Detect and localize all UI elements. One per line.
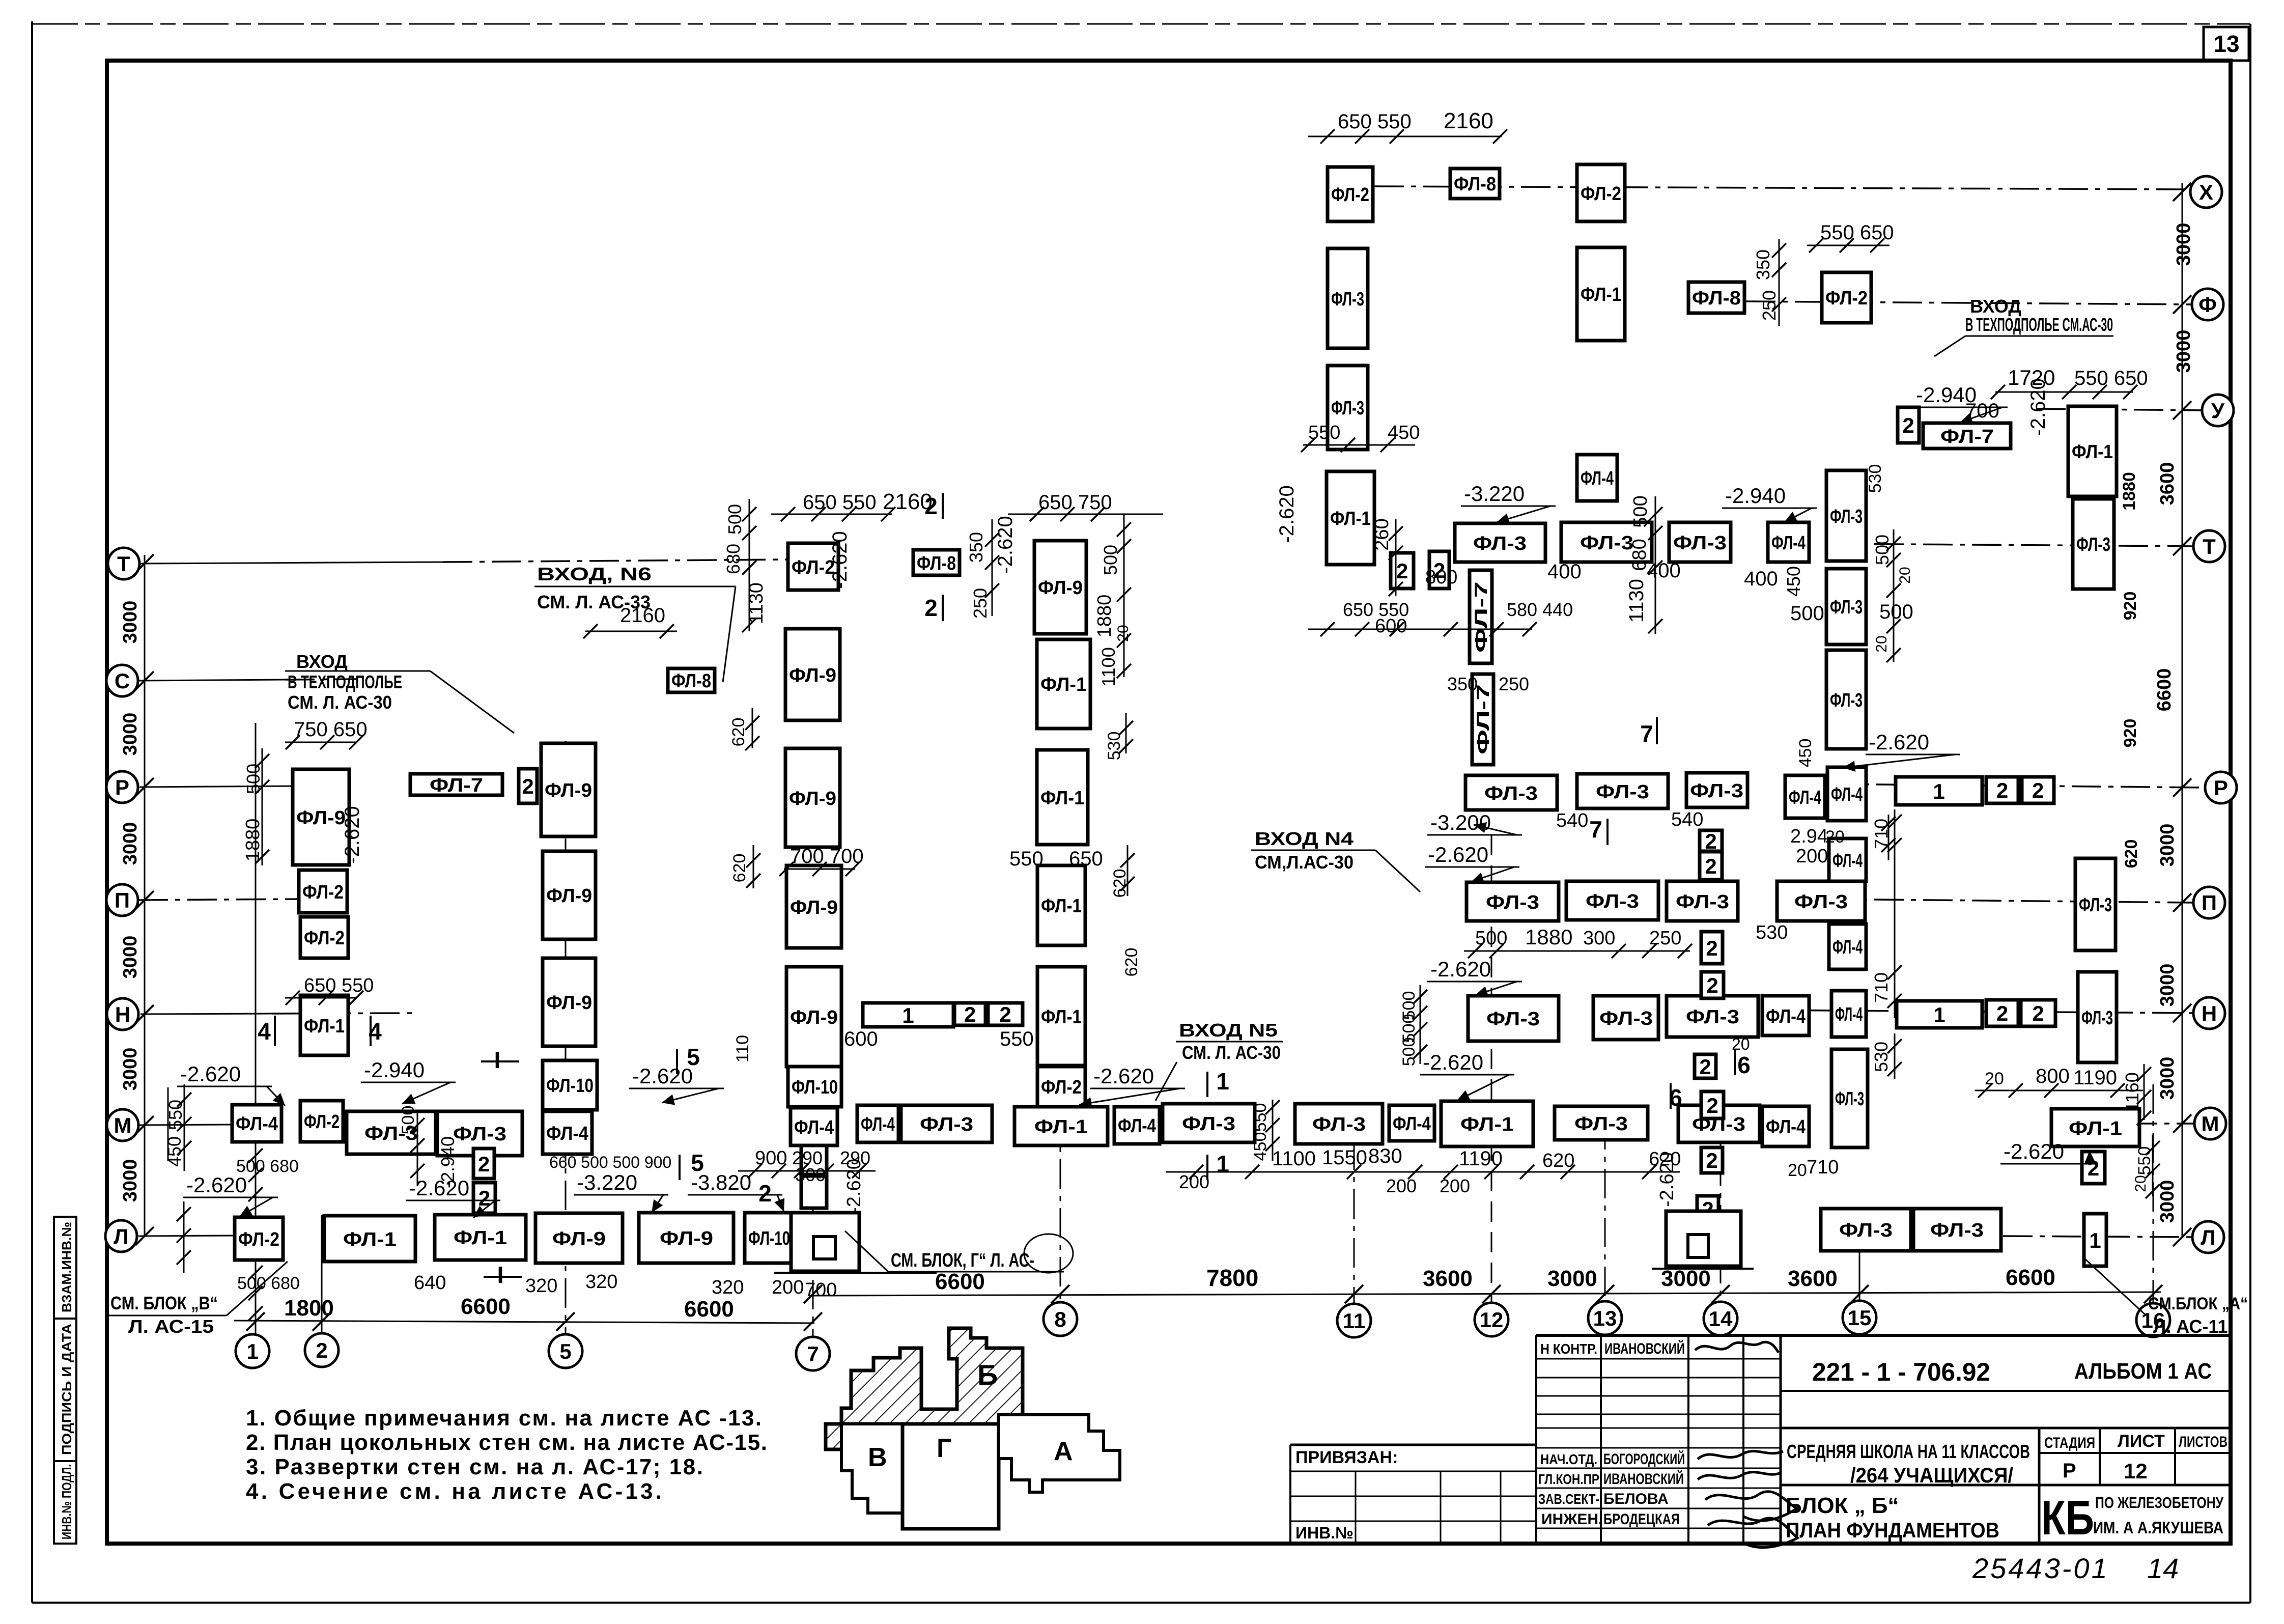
svg-text:Н КОНТР.: Н КОНТР. [1540, 1341, 1597, 1357]
foundation block ФЛ-9 at 1066,1882 [543, 958, 596, 1046]
svg-text:1. Общие примечания см. на: 1. Общие примечания см. на листе АС -13. [246, 1406, 762, 1431]
svg-text:3. Развертки стен см. на л: 3. Развертки стен см. на л. АС-17; 18. [246, 1454, 703, 1479]
svg-text:1880: 1880 [242, 819, 264, 862]
svg-text:2: 2 [1699, 1055, 1711, 1079]
svg-text:ФЛ-9: ФЛ-9 [296, 807, 346, 829]
key plan block G (Г) [903, 1424, 999, 1529]
svg-text:500: 500 [399, 1106, 418, 1135]
svg-text:2: 2 [964, 1002, 976, 1026]
svg-text:8: 8 [1054, 1307, 1066, 1331]
svg-text:680: 680 [723, 544, 744, 574]
svg-text:ВХОД: ВХОД [296, 651, 348, 672]
svg-text:20: 20 [1873, 635, 1890, 652]
svg-text:250: 250 [1759, 290, 1780, 321]
bottom dimension line upper (axes 7-16) [804, 1265, 2162, 1303]
svg-text:6600: 6600 [684, 1297, 734, 1322]
svg-text:СМ,Л.АС-30: СМ,Л.АС-30 [1255, 852, 1354, 873]
svg-text:БЕЛОВА: БЕЛОВА [1603, 1491, 1669, 1507]
foundation block ФЛ-4 at 456,2170 [232, 1105, 281, 1142]
svg-text:3000: 3000 [120, 1159, 141, 1202]
staff table [1536, 1335, 1781, 1544]
axis circle 7 [796, 1337, 830, 1370]
svg-text:ФЛ-7: ФЛ-7 [1474, 684, 1493, 754]
axis circle T left [108, 548, 139, 579]
foundation block ФЛ-9 at 575,1511 [293, 769, 349, 865]
dimension lines [168, 129, 2143, 1179]
svg-text:-2.620: -2.620 [1093, 1064, 1154, 1088]
axis circle 11 [1337, 1304, 1371, 1337]
key plan hatched appendage [826, 1424, 854, 1449]
svg-text:ИВАНОВСКИЙ: ИВАНОВСКИЙ [1603, 1470, 1684, 1488]
svg-text:-3.220: -3.220 [577, 1170, 637, 1194]
svg-text:-2.620: -2.620 [1276, 485, 1298, 543]
svg-text:2: 2 [522, 774, 533, 798]
svg-text:5: 5 [691, 1150, 704, 1176]
title block top border [1536, 1334, 2231, 1337]
foundation block 2 at 3342,2144 [1701, 1091, 1724, 1118]
foundation block 2 at 4090,2262 [2082, 1152, 2105, 1184]
svg-text:ФЛ-9: ФЛ-9 [790, 897, 838, 918]
svg-text:БРОДЕЦКАЯ: БРОДЕЦКАЯ [1603, 1511, 1680, 1528]
svg-text:2: 2 [478, 1152, 490, 1176]
foundation block 2 at 3972,1526 [2022, 777, 2054, 803]
foundation block ФЛ-3 at 3588,1277 [1826, 650, 1866, 749]
annotation SM.BLOK A (bottom right) [2084, 1258, 2248, 1337]
svg-text:ЛИСТОВ: ЛИСТОВ [2179, 1434, 2227, 1450]
axis circle 5 [549, 1334, 582, 1368]
svg-text:ФЛ-2: ФЛ-2 [1825, 288, 1868, 309]
foundation block ФЛ-1 at 2037,1256 [1037, 639, 1090, 729]
axis line L right [2003, 1236, 2192, 1237]
svg-text:500: 500 [1879, 601, 1913, 623]
svg-text:ФЛ-1: ФЛ-1 [454, 1227, 507, 1249]
axis circle 16 [2136, 1303, 2170, 1337]
svg-text:400: 400 [1744, 568, 1778, 590]
foundation block ФЛ-4 at 1553,2176 [791, 1108, 837, 1145]
svg-text:320: 320 [585, 1271, 617, 1293]
svg-text:540: 540 [1556, 810, 1588, 831]
svg-text:-2.940: -2.940 [1916, 383, 1977, 407]
axis line 1 vertical [255, 723, 257, 1335]
stage/sheet sub-table [2039, 1428, 2231, 1544]
foundation block ФЛ-3 at 3274,1956 [1667, 996, 1758, 1037]
svg-text:ФЛ-3: ФЛ-3 [2079, 894, 2112, 916]
svg-text:АЛЬБОМ 1 АС: АЛЬБОМ 1 АС [2074, 1359, 2212, 1384]
foundation block ФЛ-3 at 3274,1731 [1667, 881, 1738, 921]
svg-text:6600: 6600 [935, 1269, 985, 1294]
foundation block ФЛ-3 at 3098,1520 [1577, 774, 1668, 808]
svg-text:350: 350 [1447, 674, 1478, 694]
svg-text:620: 620 [1542, 1150, 1574, 1171]
svg-text:БЛОК „ Б“: БЛОК „ Б“ [1786, 1493, 1899, 1518]
svg-text:250: 250 [970, 588, 991, 619]
foundation block ФЛ-3 at 3077,1731 [1566, 881, 1658, 920]
svg-text:ФЛ-2: ФЛ-2 [302, 882, 344, 903]
svg-text:ПОДПИСЬ И ДАТА: ПОДПИСЬ И ДАТА [59, 1324, 74, 1455]
svg-text:ФЛ-3: ФЛ-3 [1473, 533, 1527, 554]
svg-text:ФЛ-4: ФЛ-4 [1832, 937, 1863, 958]
svg-text:300: 300 [795, 1164, 826, 1185]
svg-text:ФЛ-1: ФЛ-1 [2072, 441, 2113, 463]
axis circle L right [2192, 1221, 2224, 1253]
svg-text:500: 500 [724, 504, 745, 535]
svg-text:ФЛ-10: ФЛ-10 [748, 1228, 790, 1249]
svg-text:ФЛ-3: ФЛ-3 [1830, 597, 1863, 618]
svg-text:3000: 3000 [2157, 964, 2178, 1007]
foundation block ФЛ-2 at 1548,1067 [788, 543, 838, 590]
svg-text:1800: 1800 [284, 1296, 334, 1321]
annotation VHOD N4 [1251, 828, 1420, 892]
svg-text:ФЛ-3: ФЛ-3 [2076, 534, 2110, 555]
svg-text:ФЛ-4: ФЛ-4 [1766, 1116, 1806, 1138]
foundation block ФЛ-8 at 1312,1313 [668, 668, 715, 692]
foundation block ФЛ-3 at 2608,488 [1328, 248, 1368, 348]
svg-text:ФЛ-3: ФЛ-3 [1331, 398, 1364, 419]
svg-text:ФЛ-2: ФЛ-2 [304, 1111, 340, 1133]
svg-text:Н: Н [115, 1002, 130, 1026]
svg-text:ЗАВ.СЕКТ-: ЗАВ.СЕКТ- [1538, 1491, 1599, 1507]
svg-text:750 650: 750 650 [294, 718, 368, 741]
foundation block 2 at 3342,1830 [1701, 932, 1723, 964]
svg-text:НАЧ.ОТД.: НАЧ.ОТД. [1540, 1451, 1597, 1467]
svg-text:ВХОД, N6: ВХОД, N6 [537, 564, 652, 584]
svg-text:ФЛ-4: ФЛ-4 [1766, 1006, 1806, 1027]
svg-text:3000: 3000 [2157, 824, 2178, 867]
svg-text:ФЛ-4: ФЛ-4 [236, 1113, 278, 1135]
svg-text:ФЛ-3: ФЛ-3 [1586, 891, 1639, 912]
annotation VHOD v tehpodpolye (left) [285, 651, 514, 733]
foundation block ФЛ-2 at 3579,535 [1822, 272, 1871, 323]
svg-text:6: 6 [1737, 1052, 1751, 1078]
svg-text:ФЛ-7: ФЛ-7 [430, 775, 483, 796]
svg-text:320: 320 [525, 1275, 557, 1297]
foundation block ФЛ-8 at 1794,1080 [913, 550, 960, 575]
svg-text:ГЛ.КОН.ПР: ГЛ.КОН.ПР [1538, 1471, 1599, 1487]
axis line 7 vertical [812, 1084, 814, 1337]
svg-text:2: 2 [924, 595, 938, 621]
svg-text:660 500 500 900: 660 500 500 900 [549, 1153, 671, 1171]
svg-text:ФЛ-3: ФЛ-3 [1835, 1088, 1864, 1110]
axis line T left [139, 562, 443, 564]
foundation block 2 at 1019,1510 [519, 769, 537, 803]
svg-text:3000: 3000 [1661, 1266, 1711, 1291]
svg-text:3000: 3000 [120, 822, 141, 865]
svg-text:2: 2 [1706, 1094, 1718, 1117]
svg-text:20: 20 [1825, 827, 1845, 847]
svg-text:-2.620: -2.620 [2004, 1139, 2064, 1163]
svg-text:ФЛ-10: ФЛ-10 [546, 1075, 594, 1097]
svg-text:ВЗАМ.ИНВ.№: ВЗАМ.ИНВ.№ [59, 1222, 74, 1312]
foundation block ФЛ-3 at 2884,1956 [1468, 996, 1559, 1041]
foundation block ФЛ-1 at 2606,926 [1327, 471, 1374, 565]
elevation mark callouts [177, 383, 2095, 1218]
svg-text:ФЛ-1: ФЛ-1 [1040, 674, 1087, 695]
svg-text:-2.620: -2.620 [180, 1062, 241, 1086]
svg-text:Р: Р [115, 775, 129, 799]
svg-text:2: 2 [1706, 1149, 1717, 1172]
svg-text:221 - 1 - 706.92: 221 - 1 - 706.92 [1812, 1358, 1990, 1386]
svg-text:15: 15 [1848, 1306, 1872, 1330]
svg-text:550: 550 [1251, 1103, 1270, 1132]
svg-text:СМ. Л. АС-30: СМ. Л. АС-30 [1182, 1042, 1281, 1063]
svg-text:Т: Т [2203, 535, 2216, 558]
foundation block 2 at 3334,2349 [1697, 1196, 1718, 1222]
foundation block 1 at 1695,1970 [863, 1003, 953, 1027]
general notes list [246, 1406, 767, 1504]
axis circle N left [107, 998, 138, 1030]
svg-text:ВХОД N5: ВХОД N5 [1179, 1020, 1278, 1041]
foundation block ФЛ-3 at 4082,1909 [2078, 972, 2117, 1062]
foundation block ФЛ-3 at 2858,1028 [1455, 523, 1545, 562]
svg-text:-2.940: -2.940 [364, 1058, 425, 1082]
svg-text:ФЛ-9: ФЛ-9 [1038, 577, 1083, 599]
svg-text:-2.620: -2.620 [843, 1159, 865, 1214]
svg-text:2: 2 [924, 493, 938, 519]
axis line 16 vertical [2153, 1084, 2154, 1304]
foundation block ФЛ-4 at 3462,2173 [1762, 1106, 1809, 1146]
svg-text:3000: 3000 [2157, 1057, 2178, 1100]
svg-text:650 550: 650 550 [1343, 599, 1409, 620]
svg-text:6600: 6600 [461, 1294, 511, 1319]
foundation block ФЛ-4 at 3598,1946 [1831, 991, 1866, 1037]
axis circle P left [106, 884, 138, 916]
svg-text:ФЛ-4: ФЛ-4 [1835, 1004, 1863, 1025]
foundation block 1 at 4094,2384 [2084, 1214, 2106, 1266]
dimension value labels (rotated) [164, 249, 2154, 1214]
svg-text:2160: 2160 [1444, 108, 1493, 133]
svg-text:1: 1 [2089, 1228, 2101, 1252]
foundation block ФЛ-4 at 1684,2171 [857, 1105, 898, 1142]
svg-text:500 680: 500 680 [237, 1274, 300, 1293]
foundation block ФЛ-3 at 2881,1733 [1467, 882, 1559, 921]
svg-text:13: 13 [2213, 31, 2239, 57]
axis line 15 vertical [1859, 1250, 1860, 1302]
foundation block 2 at 3970,1964 [2021, 1000, 2055, 1026]
svg-text:П: П [115, 888, 130, 912]
svg-text:БОГОРОДСКИЙ: БОГОРОДСКИЙ [1603, 1450, 1685, 1468]
svg-text:СМ. БЛОК „В“: СМ. БЛОК „В“ [110, 1293, 218, 1313]
svg-text:3000: 3000 [120, 713, 141, 756]
foundation block ФЛ-2 at 2608,328 [1328, 167, 1373, 221]
svg-text:5: 5 [687, 1044, 700, 1070]
svg-text:ФЛ-2: ФЛ-2 [304, 928, 345, 949]
svg-text:2: 2 [758, 1180, 772, 1207]
svg-text:2.94: 2.94 [1790, 826, 1828, 847]
svg-text:Н: Н [2202, 1001, 2217, 1025]
axis line 14 vertical [1720, 1107, 1722, 1302]
foundation block 2 at 3339,1673 [1700, 852, 1722, 880]
axis circle 8 [1044, 1302, 1077, 1336]
svg-text:1: 1 [246, 1339, 258, 1363]
pedestal block with opening (axis 14) [1666, 1211, 1741, 1266]
svg-text:1880: 1880 [2120, 472, 2139, 511]
svg-text:12: 12 [1480, 1308, 1504, 1332]
svg-text:СРЕДНЯЯ ШКОЛА НА 11 КЛАССОВ: СРЕДНЯЯ ШКОЛА НА 11 КЛАССОВ [1787, 1441, 2030, 1463]
svg-text:ФЛ-4: ФЛ-4 [1393, 1113, 1431, 1135]
foundation block 2 at 930,2323 [473, 1183, 495, 1213]
svg-text:ФЛ-1: ФЛ-1 [1581, 284, 1621, 305]
svg-text:20: 20 [1788, 1161, 1807, 1180]
svg-text:ЛИСТ: ЛИСТ [2118, 1432, 2165, 1451]
svg-text:600: 600 [844, 1028, 878, 1050]
svg-text:5: 5 [559, 1339, 571, 1363]
foundation block block at 1574,2250 [801, 1145, 827, 1174]
axis circle 13 [1588, 1301, 1622, 1335]
svg-text:13: 13 [1593, 1306, 1617, 1330]
axis line N left [140, 1014, 272, 1014]
axis line U right [2036, 409, 2202, 410]
foundation block ФЛ-10 at 1548,2095 [788, 1067, 841, 1107]
svg-text:ПРИВЯЗАН:: ПРИВЯЗАН: [1295, 1448, 1398, 1467]
foundation block ФЛ-1 at 2037,1473 [1037, 750, 1088, 845]
axis line 8 vertical [1060, 1061, 1061, 1302]
project number row [1781, 1358, 2231, 1391]
svg-text:700: 700 [805, 1279, 837, 1301]
svg-text:7: 7 [1589, 816, 1602, 843]
foundation block ФЛ-3 at 3759,2374 [1913, 1209, 2001, 1251]
svg-text:Б: Б [977, 1359, 998, 1391]
page number box 13 [2204, 27, 2249, 61]
svg-text:СМ. БЛОК, Г“ Л. АС-: СМ. БЛОК, Г“ Л. АС- [891, 1250, 1034, 1271]
svg-text:ФЛ-3: ФЛ-3 [920, 1114, 973, 1135]
svg-text:500: 500 [1872, 535, 1893, 565]
axis line R right [1827, 784, 2205, 788]
svg-text:ФЛ-7: ФЛ-7 [1472, 581, 1491, 653]
svg-text:ФЛ-3: ФЛ-3 [1930, 1220, 1984, 1241]
svg-text:В ТЕХПОДПОЛЬЕ: В ТЕХПОДПОЛЬЕ [288, 671, 402, 692]
left dimension chain [120, 554, 154, 1245]
title rows [1781, 1428, 2231, 1542]
svg-text:25443-01: 25443-01 [1972, 1552, 2109, 1584]
signatures [1695, 1342, 1797, 1547]
axis line 5 vertical [565, 741, 567, 1335]
key plan letters [868, 1359, 1073, 1472]
left stamp strip [54, 1217, 76, 1544]
svg-text:550: 550 [1377, 110, 1412, 133]
right dimension chain [2120, 183, 2194, 1246]
svg-text:ФЛ-3: ФЛ-3 [1690, 780, 1743, 802]
foundation block 2 at 3339,1631 [1700, 829, 1722, 853]
svg-text:ФЛ-1: ФЛ-1 [2069, 1118, 2122, 1139]
foundation block ФЛ-2 at 2038,2095 [1037, 1067, 1085, 1107]
pedestal base lines [774, 1272, 937, 1274]
axis circle F right [2192, 289, 2223, 320]
svg-text:ИНЖЕН.: ИНЖЕН. [1541, 1511, 1602, 1528]
svg-text:ФЛ-3: ФЛ-3 [1839, 1220, 1893, 1241]
svg-text:ФЛ-9: ФЛ-9 [546, 992, 592, 1014]
svg-text:7: 7 [807, 1342, 819, 1366]
foundation block 2 at 930,2256 [473, 1149, 494, 1179]
foundation block ФЛ-10 at 1066,2083 [543, 1060, 597, 1110]
foundation block 2 at 3329,2071 [1695, 1054, 1716, 1079]
axis line P right [1825, 899, 2193, 903]
foundation block ФЛ-3 at 3130,1956 [1593, 996, 1658, 1040]
annotation VHOD N5 [1155, 1020, 1283, 1101]
foundation block ФЛ-9 at 1052,2383 [535, 1213, 623, 1263]
foundation block ФЛ-3 at 2544,2168 [1295, 1104, 1383, 1144]
svg-text:1190: 1190 [2073, 1067, 2117, 1089]
svg-text:ФЛ-3: ФЛ-3 [1331, 289, 1364, 310]
foundation block ФЛ-7 at 2887,1120 [1470, 570, 1492, 663]
foundation block ФЛ-1 at 2831,2163 [1441, 1101, 1533, 1146]
svg-text:1: 1 [1933, 779, 1944, 803]
svg-text:П: П [2202, 891, 2217, 915]
foundation block ФЛ-4 at 3593,1647 [1829, 838, 1866, 881]
svg-text:2: 2 [999, 1002, 1011, 1026]
svg-text:ФЛ-1: ФЛ-1 [1330, 508, 1371, 529]
svg-text:-2.940: -2.940 [1725, 484, 1786, 508]
axis circle N right [2193, 997, 2225, 1029]
svg-text:20: 20 [1985, 1069, 2004, 1088]
foundation block ФЛ-3 at 3588,924 [1826, 470, 1866, 561]
svg-text:-2.620: -2.620 [829, 531, 851, 589]
foundation block ФЛ-3 at 2608,718 [1328, 366, 1368, 450]
svg-text:700 700: 700 700 [790, 845, 864, 867]
svg-text:7: 7 [1640, 720, 1653, 747]
axis line R left [139, 786, 294, 787]
svg-text:ФЛ-3: ФЛ-3 [453, 1124, 506, 1145]
svg-text:-2.620: -2.620 [1423, 1050, 1483, 1074]
svg-text:ФЛ-3: ФЛ-3 [1486, 892, 1539, 913]
foundation block ФЛ-1 at 1993,2174 [1014, 1107, 1108, 1145]
svg-text:ФЛ-8: ФЛ-8 [1454, 174, 1496, 195]
svg-text:ФЛ-2: ФЛ-2 [1041, 1077, 1082, 1098]
foundation block ФЛ-4 at 2189,2174 [1114, 1107, 1160, 1144]
svg-text:ФЛ-1: ФЛ-1 [343, 1229, 397, 1250]
foundation block ФЛ-2 at 590,1801 [300, 917, 348, 958]
svg-text:ФЛ-9: ФЛ-9 [660, 1228, 713, 1249]
svg-text:У: У [2211, 399, 2225, 423]
svg-text:С: С [115, 669, 130, 693]
svg-text:М: М [2202, 1112, 2219, 1136]
svg-text:620: 620 [729, 718, 748, 747]
svg-text:А: А [1054, 1437, 1073, 1466]
foundation block ФЛ-8 at 3317,554 [1688, 282, 1744, 313]
svg-text:3000: 3000 [2157, 1180, 2178, 1223]
bottom dimension line lower (axes 1-7) [234, 1294, 822, 1331]
axis circle T right [2193, 530, 2225, 562]
svg-text:ФЛ-3: ФЛ-3 [1686, 1006, 1739, 1028]
dimension value labels (horizontal) [236, 108, 2148, 1301]
foundation block 2 at 1875,1970 [954, 1002, 985, 1026]
svg-text:110: 110 [733, 1035, 752, 1062]
key plan block A (А) [999, 1415, 1120, 1492]
svg-text:800: 800 [2036, 1065, 2070, 1087]
svg-text:3000: 3000 [2173, 330, 2194, 373]
svg-text:ФЛ-9: ФЛ-9 [789, 665, 836, 686]
foundation block ФЛ-9 at 1545,1700 [786, 865, 841, 948]
svg-text:М: М [114, 1113, 132, 1137]
svg-text:ФЛ-2: ФЛ-2 [1331, 184, 1369, 206]
svg-text:2: 2 [1705, 854, 1716, 878]
axis line 13 vertical [1604, 1120, 1606, 1302]
svg-text:-2.620: -2.620 [1430, 957, 1491, 981]
foundation block ФЛ-3 at 859,2183 [437, 1111, 522, 1156]
axis line F [1746, 301, 2191, 304]
svg-text:ФЛ-2: ФЛ-2 [238, 1229, 279, 1250]
svg-text:ФЛ-9: ФЛ-9 [789, 788, 836, 809]
foundation block ФЛ-1 at 854,2386 [435, 1215, 526, 1260]
svg-text:450: 450 [1783, 566, 1804, 597]
annotation SM.BLOK G with ellipse [845, 1231, 1073, 1273]
svg-text:2: 2 [1396, 559, 1408, 583]
svg-text:1100: 1100 [1098, 647, 1119, 686]
svg-text:I: I [494, 1047, 501, 1073]
svg-text:400: 400 [1547, 561, 1582, 583]
svg-text:540: 540 [1671, 809, 1703, 830]
foundation block ФЛ-9 at 1543,1235 [785, 629, 840, 720]
vertical dimension chains [177, 239, 2160, 1321]
